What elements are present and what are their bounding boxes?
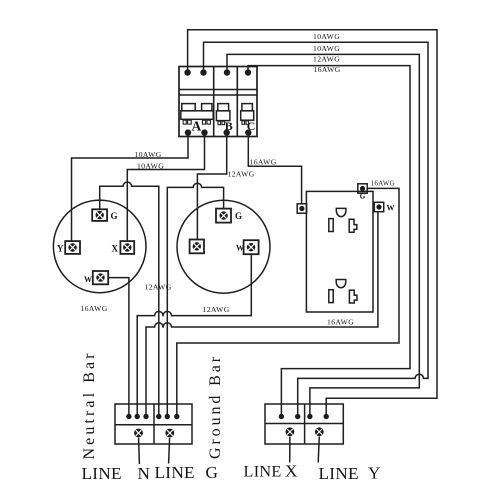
svg-text:LINE: LINE — [244, 463, 282, 481]
line Y screw — [315, 427, 324, 436]
neutral/ground bar block — [115, 404, 192, 444]
line X screw — [286, 427, 295, 436]
svg-text:Ground Bar: Ground Bar — [207, 354, 224, 459]
svg-text:16AWG: 16AWG — [314, 65, 341, 74]
outlet1 terminal G — [92, 209, 117, 221]
wire outlet2 W to neutral bar dot2 with hops — [137, 254, 251, 414]
svg-text:16AWG: 16AWG — [250, 158, 277, 167]
svg-text:12AWG: 12AWG — [203, 305, 230, 314]
duplex terminal W — [374, 202, 394, 212]
outlet2 terminal G — [216, 209, 242, 223]
svg-text:12AWG: 12AWG — [228, 170, 255, 179]
duplex face 1 ground hole — [336, 208, 346, 216]
breaker A — [181, 104, 213, 134]
outlet2 terminal W — [236, 240, 259, 254]
leader line N — [138, 438, 141, 464]
leader line G — [169, 438, 170, 464]
svg-text:12AWG: 12AWG — [145, 283, 172, 292]
breaker B — [216, 104, 232, 133]
wire duplex W to neutral bar dot3 with hops — [146, 212, 378, 414]
svg-text:10AWG: 10AWG — [135, 150, 162, 159]
duplex receptacle box — [306, 191, 373, 312]
svg-text:G: G — [360, 193, 366, 201]
duplex face 1 T slot — [349, 219, 357, 232]
neutral bar screw — [134, 429, 143, 438]
svg-text:X: X — [112, 244, 119, 254]
duplex face 1 left slot — [329, 219, 333, 232]
svg-text:16AWG: 16AWG — [327, 318, 354, 327]
svg-text:LINE: LINE — [319, 464, 359, 483]
svg-text:10AWG: 10AWG — [313, 32, 340, 41]
outlet1 terminal W — [84, 271, 108, 284]
wire W1: breaker A left top to LINE Y dot4 10AWG — [188, 30, 437, 414]
leader line X — [289, 437, 291, 463]
svg-text:Y: Y — [368, 464, 381, 483]
svg-text:W: W — [387, 204, 395, 213]
svg-text:G: G — [235, 211, 242, 221]
wire A-right hot to outlet1 X 10AWG — [127, 133, 204, 241]
svg-text:LINE: LINE — [155, 463, 195, 482]
breaker bottom terminals — [185, 129, 252, 135]
ground bar screw — [165, 429, 174, 438]
wire W2: breaker A right top to LINE X dot2 10AWG with hop — [204, 42, 429, 414]
outlet1 circle L14-30 — [53, 200, 146, 293]
svg-text:A: A — [192, 119, 202, 134]
svg-text:12AWG: 12AWG — [313, 55, 340, 64]
svg-text:16AWG: 16AWG — [371, 181, 395, 188]
leader line Y — [318, 437, 319, 463]
outlet2 circle L5-30 — [177, 200, 270, 293]
svg-text:LINE: LINE — [82, 464, 122, 483]
svg-text:Neutral Bar: Neutral Bar — [81, 350, 98, 459]
duplex face 2 left slot — [329, 290, 333, 303]
neutral bar dots — [126, 414, 179, 419]
svg-text:N: N — [138, 464, 151, 483]
duplex face 2 T slot — [349, 290, 357, 303]
wire duplex G to ground bar dot6 — [177, 188, 399, 414]
wire W3: breaker B top to LINE Y dot3 12AWG — [227, 54, 419, 414]
wire C hot to duplex hot terminal 16AWG — [248, 133, 301, 204]
svg-text:G: G — [111, 211, 118, 221]
svg-text:10AWG: 10AWG — [137, 162, 164, 171]
outlet2 terminal X — [190, 240, 204, 254]
wire outlet1 W to neutral bar dot1 — [108, 278, 129, 414]
breaker top terminals — [184, 69, 251, 75]
svg-text:G: G — [206, 463, 219, 482]
svg-text:W: W — [84, 275, 92, 284]
wire outlet1 G to ground bar dot4 with hop — [100, 182, 159, 414]
line X/Y dots — [279, 414, 329, 419]
line X/Y terminal block — [265, 404, 343, 444]
breaker C — [241, 104, 256, 133]
duplex face 2 ground hole — [336, 280, 346, 288]
svg-text:W: W — [236, 244, 244, 253]
wire W4: breaker C top to LINE X dot1 16AWG — [248, 66, 410, 414]
breaker panel box — [179, 67, 257, 137]
wire outlet2 G to ground bar dot5 with hop — [167, 183, 223, 414]
outlet1 terminal X — [112, 241, 135, 254]
duplex terminal hot — [297, 204, 306, 213]
svg-text:10AWG: 10AWG — [313, 44, 340, 53]
svg-text:X: X — [285, 462, 298, 481]
outlet1 terminal Y — [57, 241, 80, 254]
svg-text:16AWG: 16AWG — [81, 304, 108, 313]
wire A-left hot to outlet1 Y 10AWG — [72, 133, 189, 241]
wire B hot to outlet2 X 12AWG — [197, 133, 226, 240]
svg-text:Y: Y — [57, 244, 64, 254]
duplex terminal G — [358, 184, 367, 201]
